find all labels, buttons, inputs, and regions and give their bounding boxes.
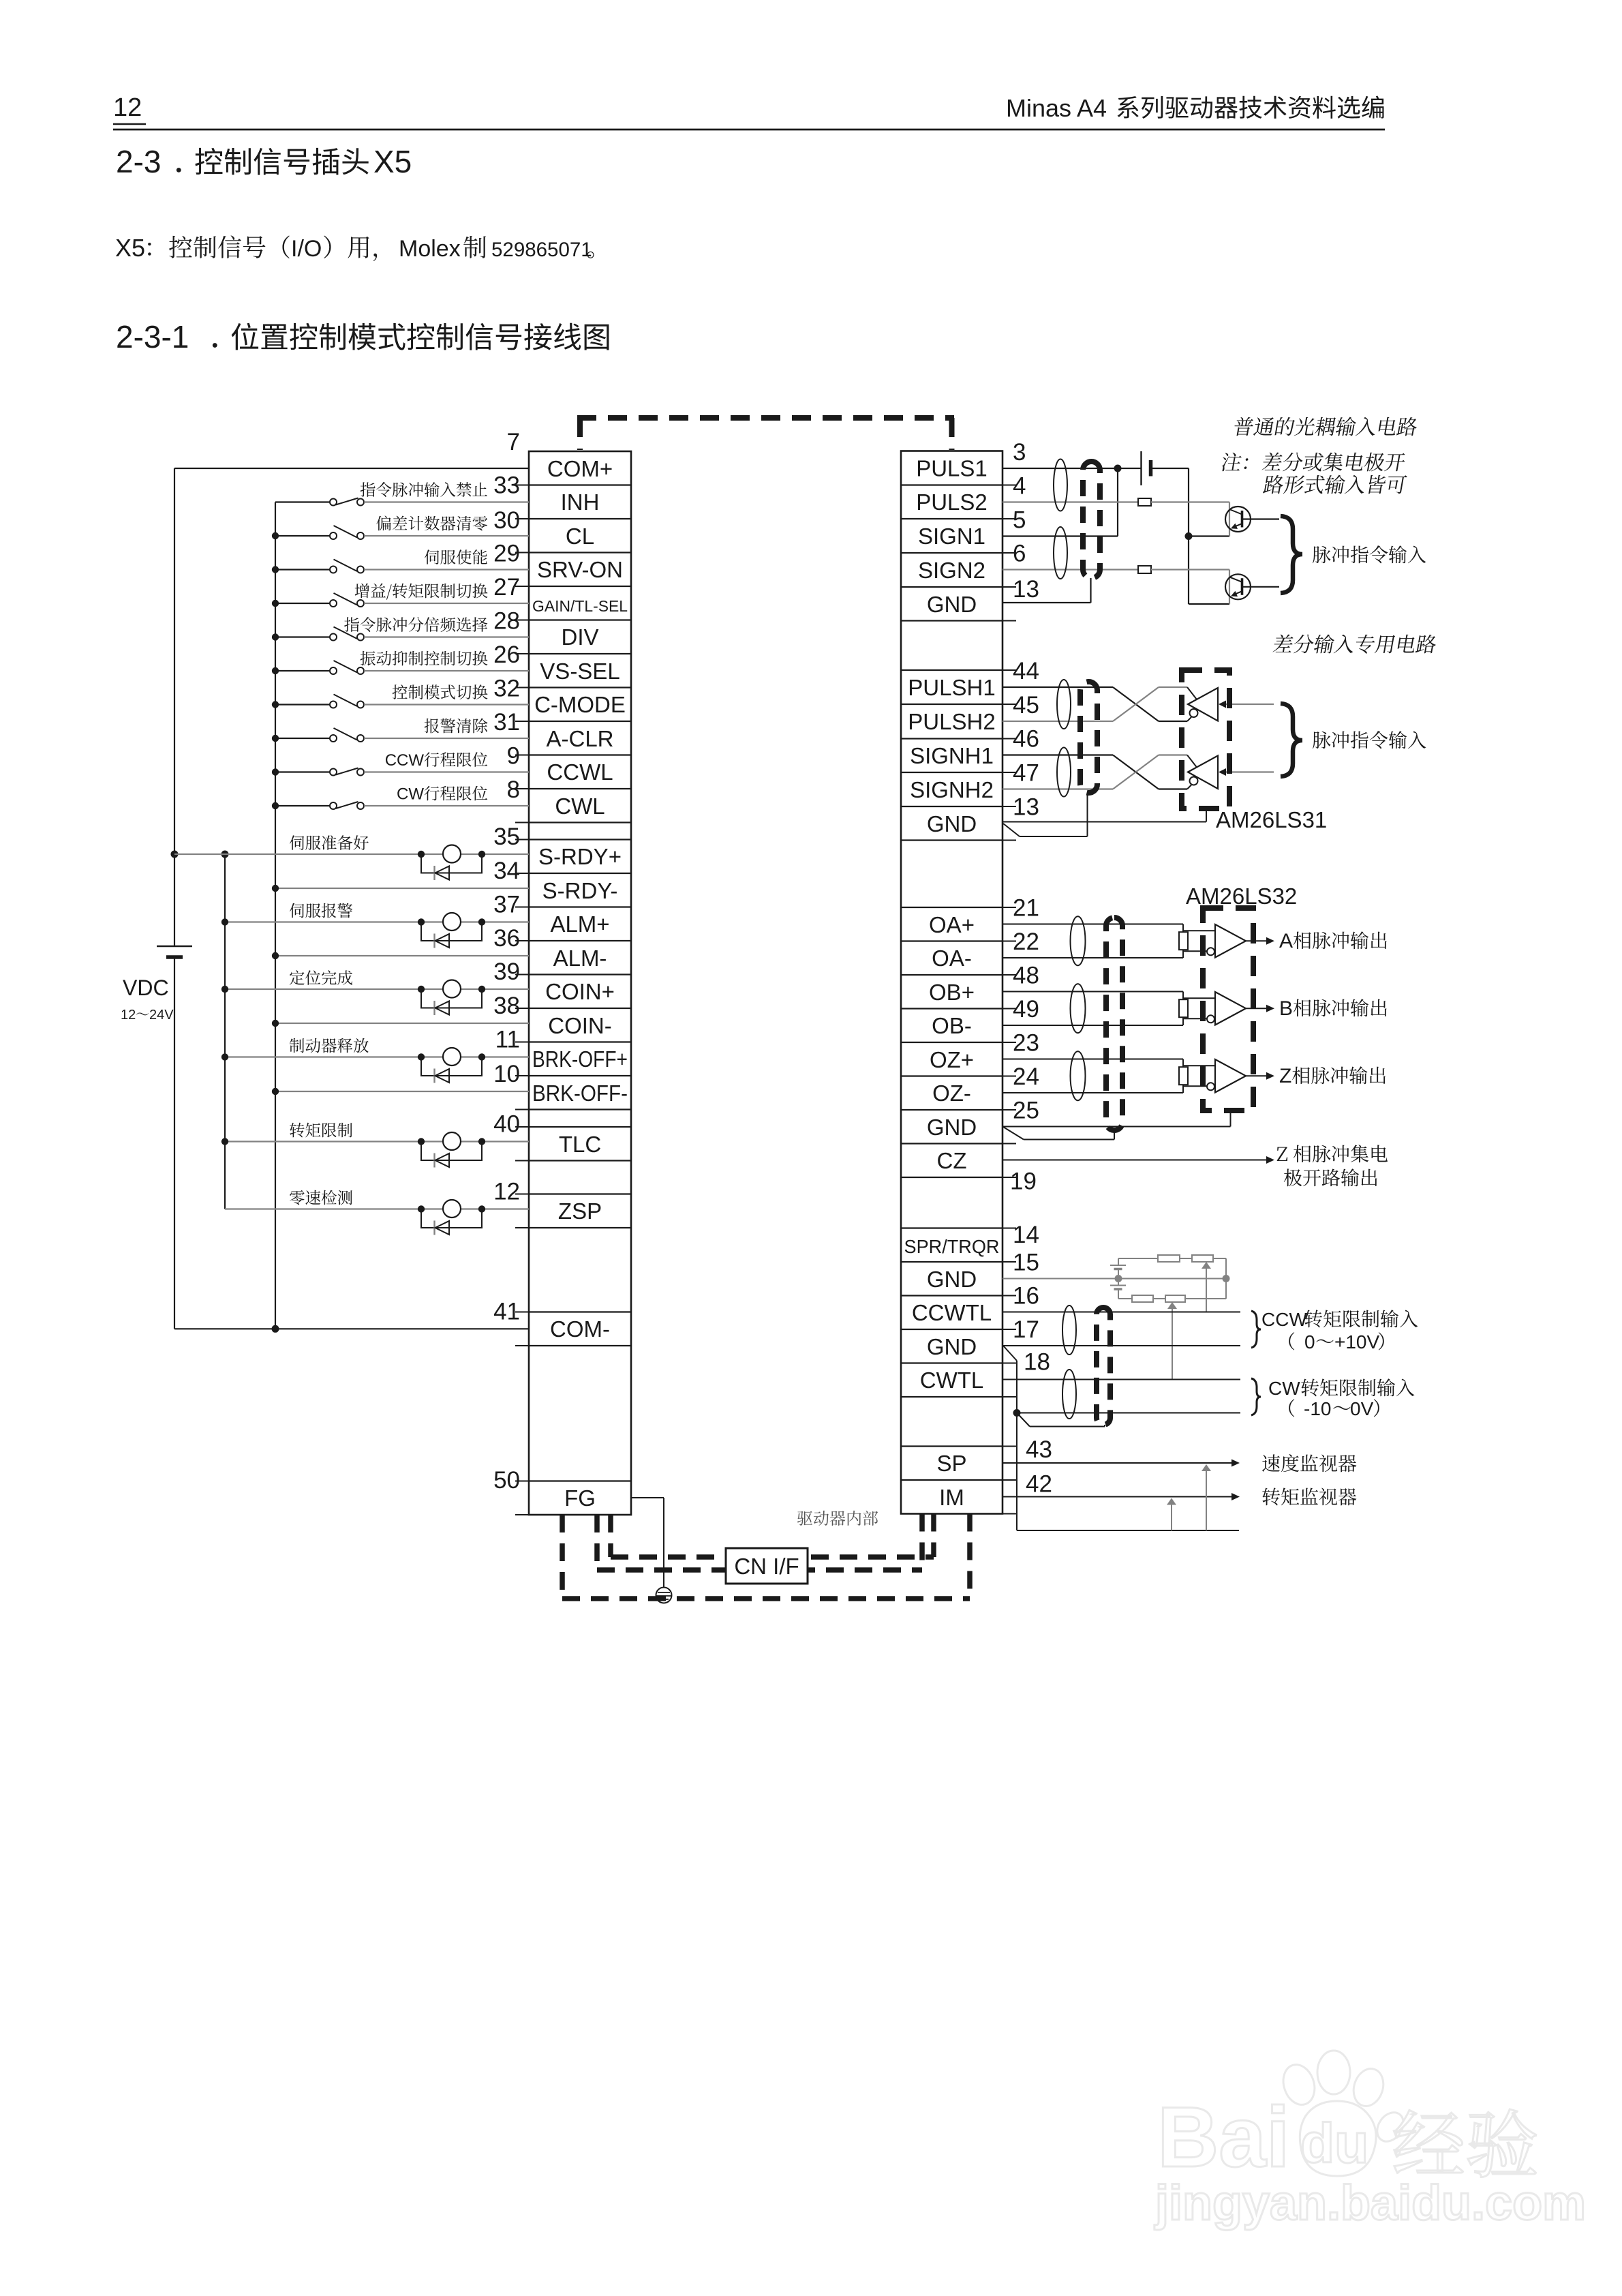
diode loop ZSP (zero speed) <box>421 1209 482 1228</box>
terminator vertical OB <box>1182 992 1184 1026</box>
svg-text:48: 48 <box>1013 963 1039 989</box>
diode COIN (position complete) cathode bar <box>433 1001 435 1015</box>
crossover PULSH black <box>1113 687 1159 721</box>
relay coil COIN (position complete) <box>443 980 461 998</box>
svg-text:ALM-: ALM- <box>553 946 607 971</box>
junction input bus / A-CLR <box>272 735 279 742</box>
svg-text:OA+: OA+ <box>929 912 975 937</box>
label COIN (position complete) <box>290 970 352 985</box>
switch CL lever <box>334 526 358 538</box>
wire C-MODE switch to pin <box>364 704 529 705</box>
right pin tick <box>1003 704 1016 705</box>
junction input bus / CCWL <box>272 768 279 775</box>
svg-text:22: 22 <box>1013 928 1039 955</box>
wire SIGN2 pin6 <box>1003 569 1138 570</box>
dashed wire COM+ to PULS1 (vertical right) <box>949 418 955 450</box>
arrowhead IM <box>1231 1493 1240 1500</box>
svg-text:CZ: CZ <box>937 1148 967 1173</box>
switch INH lever <box>336 498 358 505</box>
label INH <box>361 482 487 497</box>
wire pin lead PULSH-a <box>1003 686 1113 688</box>
right pin tick <box>1003 1446 1016 1447</box>
wire OA- lead <box>1003 957 1183 958</box>
left row separator y=1058 <box>529 721 631 722</box>
left pin tick <box>515 822 529 824</box>
right row separator y=1033 <box>901 704 1003 705</box>
opto transistor Q1 emitter stroke with arrow <box>1234 524 1242 527</box>
svg-text:GND: GND <box>927 592 977 617</box>
junction input bus / S-RDY- <box>272 885 279 892</box>
CN I/F box <box>726 1548 808 1584</box>
wire SRV-ON to input bus <box>275 569 331 570</box>
right row separator y=1430 <box>901 974 1003 976</box>
relay coil TLC (torque limit) <box>443 1132 461 1150</box>
wire CWTL pin18 <box>1003 1379 1240 1380</box>
svg-text:4: 4 <box>1013 473 1026 500</box>
left pin tick <box>515 518 529 519</box>
diode S-RDY (servo ready) triangle <box>435 866 450 880</box>
svg-text:Bai: Bai <box>1157 2090 1290 2185</box>
label ZSP (zero speed) <box>290 1190 352 1205</box>
battery VDC positive plate <box>157 946 192 947</box>
wire PULS2 pin4 <box>1003 501 1138 502</box>
wire BRK-OFF (brake release) from output bus <box>225 1056 529 1057</box>
svg-text:37: 37 <box>493 892 520 918</box>
right row separator y=2049 <box>901 1396 1003 1398</box>
wire CWL switch to pin <box>364 805 529 806</box>
wire GAIN/TL-SEL to input bus <box>275 603 331 604</box>
left pin tick <box>515 620 529 621</box>
annotation: common optocoupler input circuit <box>1233 417 1419 436</box>
pot network bottom rail <box>1118 1298 1226 1299</box>
label CW range <box>1289 1399 1294 1417</box>
label A-CLR <box>425 719 488 734</box>
svg-text:15: 15 <box>1013 1250 1039 1276</box>
wire A-CLR switch to pin <box>364 738 529 739</box>
monitor arrow up SP <box>1202 1464 1211 1471</box>
line driver SIGNH triangle (points left) <box>1188 756 1218 789</box>
diode ZSP (zero speed) triangle <box>435 1221 450 1235</box>
wire S-RDY (servo ready) from output bus <box>225 854 529 855</box>
label Z phase open collector line2 <box>1284 1168 1377 1186</box>
left pin tick <box>515 1160 529 1162</box>
svg-text:45: 45 <box>1013 692 1039 719</box>
right pin tick <box>1003 840 1016 841</box>
earth ground symbol <box>656 1588 672 1603</box>
wire CCWL to input bus <box>275 771 331 772</box>
wire OA output <box>1246 940 1268 941</box>
left row separator y=1627.5 <box>529 1108 631 1110</box>
wire SIGNH into driver top <box>1187 755 1197 768</box>
svg-text:du: du <box>1300 2113 1368 2175</box>
svg-text:SIGNH2: SIGNH2 <box>910 777 994 802</box>
svg-text:33: 33 <box>493 472 520 499</box>
driver SIGNH inverting bubble <box>1190 777 1198 785</box>
right row separator y=1232.5 <box>901 839 1003 841</box>
relay coil S-RDY (servo ready) <box>443 845 461 863</box>
twisted pair ellipse SIGN1/SIGN2 <box>1054 527 1067 579</box>
label CL <box>376 516 487 531</box>
svg-text:13: 13 <box>1013 794 1039 821</box>
label C-MODE <box>393 684 488 699</box>
svg-text:FG: FG <box>564 1485 596 1511</box>
switch A-CLR contact left <box>330 735 337 742</box>
svg-text:27: 27 <box>493 574 520 601</box>
diode loop TLC (torque limit) <box>421 1142 482 1161</box>
opto transistor Q1 collector-emitter vertical <box>1229 502 1230 537</box>
switch DIV lever <box>334 627 358 639</box>
diode ALM (servo alarm) cathode bar <box>433 934 435 948</box>
diode TLC (torque limit) triangle <box>435 1153 450 1167</box>
wire INH switch to pin <box>364 501 529 502</box>
svg-text:23: 23 <box>1013 1030 1039 1057</box>
right row separator y=1677.5 <box>901 1143 1003 1144</box>
junction output bus / TLC (torque limit) <box>221 1138 228 1145</box>
right row separator y=1900.5 <box>901 1295 1003 1296</box>
svg-text:24V: 24V <box>149 1008 174 1023</box>
switch CCWL contact right <box>357 769 364 776</box>
wire OA+ lead <box>1003 924 1183 925</box>
wire Q2 output <box>1242 586 1280 588</box>
switch SRV-ON lever <box>334 560 358 572</box>
svg-text:40: 40 <box>493 1111 520 1138</box>
pot wiper arrow (CW) <box>1167 1302 1177 1309</box>
right row separator y=2171 <box>901 1479 1003 1481</box>
label CWL <box>425 786 488 801</box>
svg-text:ZSP: ZSP <box>558 1198 602 1224</box>
IC AM26LS31 dashed box <box>1182 670 1229 809</box>
left row separator y=1429.5 <box>529 973 631 975</box>
left row separator y=1702.5 <box>529 1160 631 1161</box>
svg-text:COIN-: COIN- <box>548 1013 612 1038</box>
wire BRK-OFF- return <box>275 1091 529 1092</box>
twisted pair ellipse SIGNH <box>1057 748 1071 797</box>
switch CWL lever <box>336 802 358 809</box>
right pin tick <box>1003 1363 1016 1364</box>
left row separator y=1281 <box>529 873 631 874</box>
junction S-RDY (servo ready) left <box>418 851 425 858</box>
watermark paw toes <box>1279 2061 1319 2109</box>
diode BRK-OFF (brake release) triangle <box>435 1069 450 1083</box>
pot wiper arrow (CCW) <box>1202 1262 1211 1269</box>
svg-text:0: 0 <box>1304 1331 1315 1353</box>
junction input bus / CWL <box>272 802 279 809</box>
input common bus (switches) <box>275 502 276 1329</box>
wire VDC- vertical to COM- <box>174 957 175 1329</box>
right pin tick bottom <box>1003 1513 1016 1515</box>
reference battery upper cell <box>1118 1258 1119 1265</box>
svg-text:49: 49 <box>1013 996 1039 1023</box>
right pin tick <box>1003 1143 1016 1145</box>
twisted pair ellipse PULSH <box>1057 680 1071 729</box>
svg-text:30: 30 <box>493 507 520 534</box>
left row separator y=1330.5 <box>529 906 631 907</box>
svg-text:INH: INH <box>561 489 600 515</box>
svg-text:28: 28 <box>493 608 520 635</box>
battery VDC negative plate <box>166 955 183 959</box>
right pin tick <box>1003 974 1016 976</box>
junction GND15 right (gray) <box>1223 1275 1230 1282</box>
wire pin lead PULSH-b <box>1003 721 1113 722</box>
switch VS-SEL contact right <box>357 667 364 674</box>
receiver OZ inverting bubble <box>1207 1083 1214 1090</box>
svg-text:7: 7 <box>507 429 520 455</box>
label S-RDY (servo ready) <box>290 835 369 850</box>
wire SIGNH input from host <box>1226 771 1274 772</box>
wire GND17 hook down <box>1003 1346 1017 1361</box>
right pin tick <box>1003 1396 1016 1398</box>
svg-text:BRK-OFF+: BRK-OFF+ <box>532 1046 628 1072</box>
left pin tick <box>515 586 529 587</box>
wire CL to input bus <box>275 535 331 537</box>
cable shield dashed: bottom horizontal <box>562 1596 970 1601</box>
junction input bus / BRK-OFF- <box>272 1088 279 1095</box>
svg-text:GND: GND <box>927 1267 977 1292</box>
left pin tick <box>515 1227 529 1228</box>
wire CCWL switch to pin <box>364 771 529 772</box>
left row separator y=1528.5 <box>529 1041 631 1042</box>
label DIV <box>344 617 487 632</box>
junction GND15 left (gray) <box>1115 1275 1122 1282</box>
wire FG down to earth <box>663 1498 664 1588</box>
left row separator y=1008.5 <box>529 686 631 688</box>
right pin tick <box>1003 620 1016 622</box>
svg-text:13: 13 <box>1013 576 1039 603</box>
cable shield (dashed stadium) pulse input <box>1083 462 1100 578</box>
switch SRV-ON contact left <box>330 567 337 573</box>
left row separator y=909.5 <box>529 619 631 620</box>
svg-text:12: 12 <box>493 1179 520 1205</box>
svg-text:16: 16 <box>1013 1283 1039 1310</box>
right pin tick <box>1003 586 1016 588</box>
wire INH to input bus <box>275 501 331 502</box>
left pin tick <box>515 1481 529 1482</box>
svg-text:VDC: VDC <box>123 976 169 1000</box>
junction COIN (position complete) right <box>478 986 485 993</box>
line receiver OA triangle (points right) <box>1215 924 1246 958</box>
label SRV-ON <box>425 549 487 564</box>
svg-text:B: B <box>1279 997 1293 1020</box>
right row separator y=1331 <box>901 907 1003 908</box>
resistor top-1 <box>1158 1255 1180 1262</box>
annotation: note line 2 <box>1262 475 1407 494</box>
svg-text:AM26LS31: AM26LS31 <box>1216 807 1327 832</box>
wire OA to receiver - input <box>1183 950 1207 952</box>
twisted pair ellipse CCWTL/GND <box>1062 1305 1076 1355</box>
opto transistor Q1 circle <box>1225 507 1251 532</box>
junction input bus / GAIN/TL-SEL <box>272 600 279 607</box>
svg-text:S-RDY+: S-RDY+ <box>538 844 622 869</box>
wire GND pin25 to AM26LS32 <box>1003 1126 1231 1128</box>
switch A-CLR contact right <box>357 735 364 742</box>
switch C-MODE lever <box>334 695 358 707</box>
wire OB- lead <box>1003 1025 1183 1026</box>
left row separator y=2172.5 <box>529 1480 631 1481</box>
wire CWL to input bus <box>275 805 331 806</box>
svg-text:BRK-OFF-: BRK-OFF- <box>532 1081 628 1106</box>
switch SRV-ON contact right <box>357 567 364 573</box>
page number underline <box>113 123 146 125</box>
junction opto supply / Q1 return <box>1185 532 1193 540</box>
right row separator y=1380.5 <box>901 940 1003 941</box>
resistor on SIGN2 <box>1138 566 1151 573</box>
switch CL contact right <box>357 532 364 539</box>
junction input bus / DIV <box>272 633 279 640</box>
left row separator y=1801 <box>529 1227 631 1228</box>
svg-text:529865071: 529865071 <box>491 239 592 261</box>
wire SIGNH into driver bubble <box>1187 785 1191 789</box>
right pin tick <box>1003 1295 1016 1297</box>
wire PULS2 resistor to Q1 <box>1151 501 1229 502</box>
input arrowhead PULSH <box>1219 701 1226 708</box>
wire COM+ pin7 to VDC+ <box>174 468 529 469</box>
svg-text:CWTL: CWTL <box>920 1368 984 1393</box>
svg-text:39: 39 <box>493 958 520 985</box>
output arrowhead OA <box>1266 937 1274 945</box>
annotation: dedicated differential input circuit <box>1272 635 1438 654</box>
switch C-MODE contact right <box>357 701 364 708</box>
svg-text:12: 12 <box>121 1008 136 1023</box>
junction ALM (servo alarm) right <box>478 918 485 925</box>
terminating resistor OB <box>1179 999 1188 1017</box>
wire OZ output <box>1246 1075 1268 1076</box>
wire SIGN1 pin5 <box>1003 535 1118 537</box>
svg-text:43: 43 <box>1026 1436 1052 1463</box>
svg-text:25: 25 <box>1013 1098 1039 1124</box>
cable shield dashed: left inner drop <box>608 1515 613 1557</box>
diode BRK-OFF (brake release) cathode bar <box>433 1069 435 1083</box>
cable shield dashed: left outer drop <box>560 1515 565 1599</box>
left pin tick <box>515 1345 529 1346</box>
left row separator y=761 <box>529 518 631 519</box>
svg-text:32: 32 <box>493 676 520 702</box>
label torque monitor <box>1262 1487 1356 1505</box>
wire shield drain (torque) via diagonal <box>1017 1413 1030 1427</box>
right row separator y=761 <box>901 518 1003 519</box>
wire Q2 bottom return <box>1189 603 1229 605</box>
wire C-MODE to input bus <box>275 704 331 705</box>
junction input bus / VS-SEL <box>272 667 279 674</box>
wire FG pin50 <box>631 1497 664 1498</box>
junction COM- / input bus <box>272 1325 279 1333</box>
wire SP pin43 <box>1003 1462 1232 1464</box>
right row separator y=861 <box>901 586 1003 588</box>
cable shield (dashed stadium) torque <box>1097 1308 1110 1425</box>
right row separator y=1999.5 <box>901 1362 1003 1363</box>
wire GAIN/TL-SEL switch to pin <box>364 603 529 604</box>
wire SIGN1 pin5 riser <box>1117 468 1118 537</box>
crossover PULSH gray <box>1113 687 1159 721</box>
wire COM- pin41 <box>174 1328 529 1329</box>
right pin tick <box>1003 1228 1016 1229</box>
twisted pair ellipse PULS1/PULS2 <box>1054 459 1067 511</box>
svg-text:AM26LS32: AM26LS32 <box>1186 883 1297 909</box>
label speed monitor <box>1262 1454 1356 1472</box>
svg-text:21: 21 <box>1013 895 1039 922</box>
wire OZ to receiver + input <box>1183 1065 1215 1066</box>
junction PULS1 / SIGN1 tie <box>1114 465 1122 472</box>
wire DIV switch to pin <box>364 636 529 637</box>
svg-text:9: 9 <box>507 743 520 770</box>
junction ALM (servo alarm) left <box>418 918 425 925</box>
wire OZ- lead <box>1003 1092 1183 1093</box>
wire OB+ lead <box>1003 991 1183 993</box>
switch CCWL lever <box>336 768 358 775</box>
right pin tick <box>1003 552 1016 554</box>
diode S-RDY (servo ready) cathode bar <box>433 866 435 880</box>
wire shield drain to GND pin25 <box>1003 1127 1024 1140</box>
label ALM (servo alarm) <box>290 903 352 918</box>
right pin tick <box>1003 907 1016 908</box>
label driver internal <box>797 1511 878 1526</box>
left row separator y=810.5 <box>529 552 631 553</box>
pot network right vertical <box>1225 1258 1227 1299</box>
svg-text:47: 47 <box>1013 760 1039 787</box>
output arrowhead OZ <box>1266 1072 1274 1080</box>
svg-text:jingyan.baidu.com: jingyan.baidu.com <box>1154 2176 1586 2231</box>
cable shield dashed: lower horizontal <box>597 1567 922 1573</box>
left row separator y=711.5 <box>529 484 631 485</box>
right row separator y=1727 <box>901 1177 1003 1178</box>
svg-text:X5: X5 <box>115 234 145 262</box>
opto transistor Q2 collector-emitter vertical <box>1229 570 1230 605</box>
right row separator y=1479.5 <box>901 1008 1003 1009</box>
right pin tick <box>1003 941 1016 942</box>
right pin tick <box>1003 1109 1016 1111</box>
wire ALM- return <box>275 955 529 956</box>
wire CCW wiper down to CCWTL <box>1206 1267 1207 1312</box>
svg-text:8: 8 <box>507 776 520 803</box>
svg-text:SRV-ON: SRV-ON <box>537 557 623 582</box>
left row separator y=1206.5 <box>529 821 631 823</box>
wire PULSH lower into driver <box>1159 721 1187 722</box>
right pin tick <box>1003 1076 1016 1077</box>
switch CWL contact left <box>330 802 337 809</box>
resistor on PULS2 <box>1138 498 1151 506</box>
svg-text:26: 26 <box>493 641 520 668</box>
left pin tick <box>515 1194 529 1195</box>
wire VS-SEL to input bus <box>275 670 331 671</box>
resistor bottom-2 (pot) <box>1165 1295 1185 1302</box>
svg-text:41: 41 <box>493 1298 520 1325</box>
wire CW wiper down to CWTL <box>1172 1307 1173 1380</box>
junction output bus / BRK-OFF (brake release) <box>221 1053 228 1060</box>
wire PULSH upper into driver <box>1159 686 1187 688</box>
wire monitor return rail <box>1017 1530 1239 1531</box>
cable shield dashed: right inner drop <box>931 1514 936 1558</box>
twisted pair ellipse CWTL/GND <box>1062 1370 1076 1419</box>
wire COIN- return <box>275 1023 529 1024</box>
wire PULS1 pin3 <box>1003 468 1141 469</box>
left pin tick <box>515 1042 529 1043</box>
switch VS-SEL contact left <box>330 667 337 674</box>
svg-text:10: 10 <box>493 1061 520 1087</box>
brace pulse command input (opto) <box>1281 516 1302 593</box>
wire pin lead SIGNH-a <box>1003 754 1113 755</box>
svg-text:VS-SEL: VS-SEL <box>540 659 619 684</box>
right row separator y=2121.5 <box>901 1445 1003 1447</box>
wire GND17 extension to CW brace <box>1017 1413 1240 1414</box>
right pin tick <box>1003 1008 1016 1010</box>
wire PULSH into driver bubble <box>1187 717 1191 721</box>
left pin tick <box>515 940 529 941</box>
svg-text:PULS1: PULS1 <box>916 456 988 481</box>
battery (external) long plate <box>1140 451 1142 485</box>
junction COIN (position complete) left <box>418 986 425 993</box>
arrowhead CZ <box>1266 1156 1274 1164</box>
right row separator y=1801.5 <box>901 1227 1003 1228</box>
wire ZSP (zero speed) from output bus <box>225 1208 529 1209</box>
